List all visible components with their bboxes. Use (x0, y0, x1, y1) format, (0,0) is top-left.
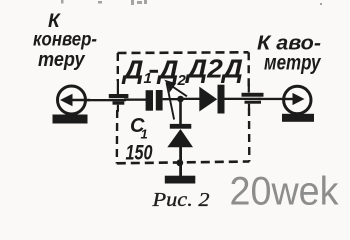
wire: right feedthrough to connector X2 (258, 98, 285, 100)
wire: D1 to ground through box (179, 147, 182, 176)
svg-text:конвер-: конвер- (33, 29, 97, 51)
leader arrow from label to diodes (167, 83, 187, 120)
connector X1 pedestal (53, 115, 88, 124)
svg-text:20wek: 20wek (230, 170, 340, 214)
svg-text:теру: теру (38, 49, 85, 71)
wire: feedthrough to capacitor C1 (124, 99, 146, 101)
feedthrough capacitor at right box edge (242, 84, 264, 109)
ground (chassis bar) (165, 176, 196, 184)
cut-off text remnants top edge (61, 0, 322, 5)
junction dot on screen bottom edge (176, 159, 183, 166)
svg-text:150: 150 (126, 141, 153, 165)
connector X2 pedestal (282, 114, 314, 122)
capacitor C1 plates (146, 90, 163, 111)
diode D2 (series, horizontal) (199, 85, 224, 114)
connector X2 (right, to avometer) (284, 86, 311, 113)
feedthrough capacitor at left box edge (109, 80, 129, 112)
wire: node A down to diode D1 (179, 99, 182, 124)
svg-text:2: 2 (177, 72, 187, 89)
diode D1 (shunt, cathode bar up) (167, 124, 193, 147)
svg-text:Рис. 2: Рис. 2 (151, 189, 209, 211)
wire: C1 to node A (163, 98, 181, 100)
svg-text:метру: метру (264, 52, 322, 75)
wire: D2 to right feedthrough (225, 98, 262, 100)
wire: node A to diode D2 (183, 98, 200, 100)
label "К авометру" (to avometer) (257, 32, 322, 75)
svg-text:Д: Д (156, 55, 178, 85)
dashed screen box (bottom edge) (117, 162, 250, 164)
wire: X1 to feedthrough C1 entry (85, 99, 126, 101)
svg-text:Д2Д: Д2Д (185, 54, 243, 84)
svg-text:Д: Д (121, 55, 143, 85)
label D1-D2 with subscripts (121, 55, 186, 90)
node A (junction dot) (177, 96, 184, 103)
connector X1 (left, to converter) (58, 86, 91, 114)
dashed screen box (left edge) (117, 53, 119, 81)
label C1 (130, 115, 148, 142)
dashed screen box (right edge) (247, 52, 249, 90)
dashed screen box (top edge) (118, 51, 249, 54)
svg-text:1: 1 (141, 127, 148, 142)
label "К конвертеру" (to converter) (33, 11, 97, 71)
